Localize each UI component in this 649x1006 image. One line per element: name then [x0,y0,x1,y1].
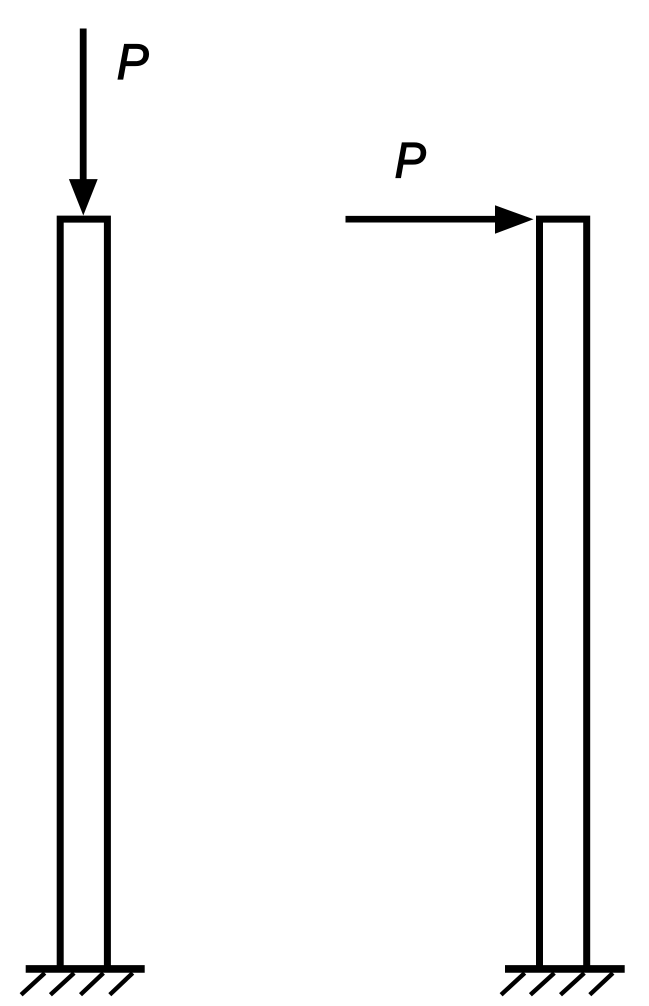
svg-text:P: P [395,133,427,189]
svg-text:P: P [117,34,149,90]
